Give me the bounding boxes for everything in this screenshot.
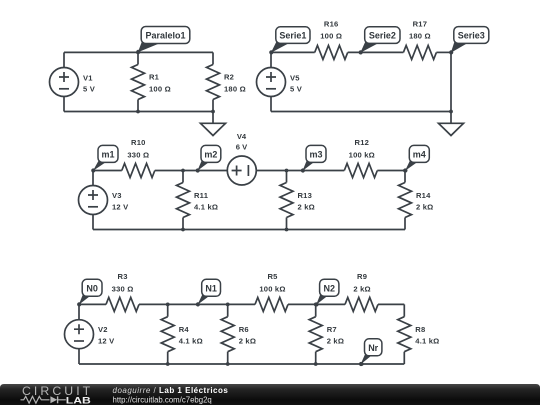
svg-text:R2: R2 [224, 73, 234, 82]
svg-text:Paralelo1: Paralelo1 [145, 31, 185, 41]
svg-text:Serie3: Serie3 [458, 31, 485, 41]
svg-text:LAB: LAB [66, 395, 92, 405]
svg-text:m2: m2 [204, 150, 217, 160]
svg-text:m3: m3 [309, 150, 322, 160]
svg-text:V1: V1 [83, 74, 93, 83]
svg-text:Serie1: Serie1 [279, 31, 306, 41]
svg-text:100 kΩ: 100 kΩ [259, 284, 285, 293]
svg-text:R12: R12 [355, 138, 370, 147]
svg-text:330 Ω: 330 Ω [112, 284, 134, 293]
svg-text:5 V: 5 V [83, 85, 96, 94]
svg-text:R4: R4 [179, 325, 190, 334]
svg-text:R3: R3 [118, 272, 128, 281]
svg-text:2 kΩ: 2 kΩ [239, 337, 256, 346]
svg-text:N2: N2 [323, 283, 335, 293]
svg-text:330 Ω: 330 Ω [127, 151, 149, 160]
svg-text:5 V: 5 V [290, 85, 303, 94]
svg-text:180 Ω: 180 Ω [409, 32, 431, 41]
svg-text:6 V: 6 V [236, 142, 248, 151]
svg-text:R13: R13 [298, 191, 313, 200]
svg-text:http://circuitlab.com/c7ebg2q: http://circuitlab.com/c7ebg2q [113, 396, 212, 405]
svg-text:R11: R11 [194, 191, 209, 200]
svg-text:m1: m1 [101, 150, 114, 160]
svg-text:R17: R17 [413, 19, 428, 28]
svg-text:m4: m4 [413, 150, 426, 160]
svg-text:R10: R10 [131, 138, 146, 147]
svg-text:2 kΩ: 2 kΩ [327, 337, 344, 346]
svg-text:12 V: 12 V [98, 337, 115, 346]
svg-text:Serie2: Serie2 [369, 31, 396, 41]
svg-text:V4: V4 [237, 132, 247, 141]
svg-text:2 kΩ: 2 kΩ [416, 202, 433, 211]
svg-text:12 V: 12 V [112, 202, 129, 211]
svg-text:100 Ω: 100 Ω [320, 32, 342, 41]
svg-text:Nr: Nr [368, 343, 378, 353]
svg-text:R1: R1 [149, 73, 160, 82]
svg-text:N0: N0 [86, 283, 98, 293]
svg-text:180 Ω: 180 Ω [224, 85, 246, 94]
svg-text:R14: R14 [416, 191, 431, 200]
svg-text:doaguirre / Lab 1 Eléctricos: doaguirre / Lab 1 Eléctricos [113, 386, 229, 395]
svg-text:V5: V5 [290, 74, 300, 83]
svg-text:R16: R16 [324, 19, 339, 28]
svg-text:V3: V3 [112, 191, 122, 200]
svg-text:100 Ω: 100 Ω [149, 85, 171, 94]
svg-text:100 kΩ: 100 kΩ [349, 151, 375, 160]
svg-text:4.1 kΩ: 4.1 kΩ [194, 202, 218, 211]
svg-text:R8: R8 [415, 325, 425, 334]
svg-text:R5: R5 [267, 272, 278, 281]
svg-text:V2: V2 [98, 325, 108, 334]
svg-text:4.1 kΩ: 4.1 kΩ [179, 337, 203, 346]
svg-text:N1: N1 [205, 283, 217, 293]
svg-text:R6: R6 [239, 325, 249, 334]
svg-text:R9: R9 [357, 272, 367, 281]
svg-text:4.1 kΩ: 4.1 kΩ [415, 337, 439, 346]
svg-text:2 kΩ: 2 kΩ [353, 284, 370, 293]
svg-text:2 kΩ: 2 kΩ [298, 202, 315, 211]
svg-text:R7: R7 [327, 325, 337, 334]
